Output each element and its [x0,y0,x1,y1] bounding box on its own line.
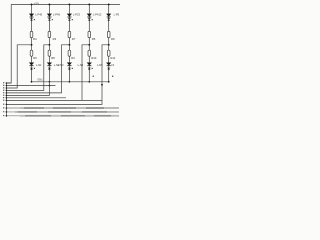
wire left rail vertical [6,4,11,83]
svg-text:R11: R11 [110,56,115,60]
node junction col4 [88,44,90,46]
diode D1 top [29,14,34,17]
node top dot col2 [48,3,50,5]
node bus dot L8 [6,100,8,102]
diode D3 [67,14,72,17]
resistor R6 row2 [30,50,33,56]
svg-text:L-P23: L-P23 [73,13,80,17]
diode D3b small [68,18,70,20]
bottom fan [6,83,119,116]
svg-text:L-N4: L-N4 [78,63,84,67]
svg-text:R7: R7 [72,37,76,41]
wire fan L10 [6,107,119,109]
node bus dot L5 [6,92,8,94]
diode D8b small [68,68,70,70]
svg-text:R4: R4 [33,37,37,41]
texture dashes on grey lines [15,108,111,116]
resistor R2 row2 [68,50,71,56]
node bus dot col3 [69,81,71,83]
wire column3 vertical [68,4,70,81]
left edge pin stubs [3,82,4,116]
svg-text:R10: R10 [91,56,97,60]
wire column4 vertical [88,4,90,81]
diode D9 row2 [87,63,92,66]
node junction col5 [108,44,110,46]
wire fan L11 [6,111,119,113]
wire fan L12 [6,115,119,117]
svg-text:L-N5: L-N5 [97,63,103,67]
wire fan L8 [6,99,102,101]
wire row2 cathode bus [32,81,109,83]
diode D6b small [30,68,32,70]
node bus dot col4 [88,81,90,83]
svg-text:L-N3: L-N3 [58,63,64,67]
column 5 [6,3,119,104]
wire tap4 [82,45,89,101]
node bus dot col5 [108,81,110,83]
diode D10 row2 [106,63,111,66]
svg-text:R9: R9 [111,37,115,41]
svg-text:R6: R6 [33,56,37,60]
node top dot col4 [88,3,90,5]
node bus dot L1 [6,82,8,84]
diode D1b small [30,18,32,20]
diode D9b small [88,68,90,70]
wire fan L2 [6,85,55,87]
svg-text:R3: R3 [53,37,57,41]
node bus dot L3 [6,87,8,89]
diode D6 row2 [29,63,34,66]
svg-text:R8: R8 [51,56,55,60]
node bus dot L6 [6,95,8,97]
svg-text:L-P413: L-P413 [93,13,102,17]
diode D7b small [48,68,50,70]
diode D4b small [88,18,90,20]
resistor R10 row2 [88,50,91,56]
node bus dot L7 [6,97,8,99]
resistor R3 [48,31,51,37]
label speck [34,19,35,20]
node top dot col1 [31,3,33,5]
label speck [92,19,93,20]
wire tap5 [6,45,108,105]
resistor R4 [30,31,33,37]
node bus dot col2 [49,81,51,83]
svg-text:GN1: GN1 [37,78,43,82]
node tap5 cross dot [101,84,103,86]
label speck [52,19,53,20]
resistor R8 row2 [48,50,51,56]
diode D2 [47,14,52,17]
node junction col1 [31,44,33,46]
node L2 dot [49,85,51,87]
svg-text:R5: R5 [92,37,96,41]
wire column2 vertical [48,4,50,81]
resistor R9 [107,31,110,37]
node bus dot L12 [6,115,8,117]
node top dot col5 [108,3,110,5]
svg-text:+5V: +5V [34,2,40,6]
label speck2 [92,68,93,69]
wire fan L7 [6,97,66,99]
svg-text:L-P45: L-P45 [35,13,42,17]
diode D7 row2 [47,63,52,66]
wire left bus vertical [5,83,7,117]
column 4 [78,3,102,100]
wire column1 vertical [31,4,33,81]
diode D10b small [108,68,110,70]
diode D2b small [48,18,50,20]
node bus dot L11 [6,111,8,113]
node bus dot L2 [6,85,8,87]
column 1 [6,3,42,88]
diode D5 [106,14,111,17]
node junction col3 [68,44,70,46]
diode D8 row2 [67,63,72,66]
wire tap2 [6,45,49,91]
texture smudge on grey lines [18,108,119,116]
resistor R7 [68,31,71,37]
svg-text:R2: R2 [71,56,75,60]
wire tap1 [6,45,31,88]
label speck2 [34,68,35,69]
wire fan L1 [6,82,11,84]
label speck col4 bus [93,76,94,77]
label speck2 [72,68,73,69]
label speck [72,19,73,20]
left bus junction dots [6,82,8,116]
svg-text:L-P49: L-P49 [53,13,60,17]
node bus dot col1 [31,81,33,83]
resistor R11 row2 [107,50,110,56]
wire top +5V bus [11,3,120,5]
node junction col2 [48,44,50,46]
diode D4 [87,14,92,17]
wire column5 vertical [108,4,110,81]
node bus dot L10 [6,107,8,109]
node bus dot L4 [6,90,8,92]
column 3 [6,3,80,92]
label speck col5 bus [112,76,113,77]
resistor R5 [88,31,91,37]
svg-text:L-N1: L-N1 [36,63,42,67]
svg-text:L-P5: L-P5 [114,13,120,17]
node bus dot L9 [6,104,8,106]
column 2 [6,3,60,95]
node top dot col3 [68,3,70,5]
wire tap3 [6,45,69,93]
wire col2 through-line [6,82,49,96]
diode D5b small [108,18,110,20]
